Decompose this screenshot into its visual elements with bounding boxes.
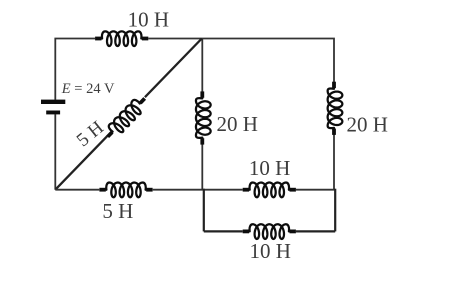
wire: lower loop left horizontal	[204, 230, 243, 232]
wire: bottom wire left of 5H	[55, 189, 99, 191]
wire: top wire left segment (top-left corner to 10H terminal)	[55, 39, 95, 100]
battery E bottom plate	[46, 111, 60, 115]
svg-text:10 H: 10 H	[250, 239, 291, 263]
svg-text:20 H: 20 H	[347, 113, 388, 137]
inductor L7 10H lower parallel	[243, 224, 296, 239]
wire: lower loop left vertical	[203, 189, 205, 232]
svg-text:10 H: 10 H	[249, 156, 290, 180]
wire: middle vertical upper (top node to 20H)	[201, 39, 203, 92]
wire: top wire right segment (10H to top-right corner, down to 20H)	[148, 39, 334, 86]
wire: lower loop right horizontal	[296, 230, 335, 232]
wire: upper branch junction to 10H	[204, 189, 243, 191]
svg-text:5 H: 5 H	[73, 117, 108, 151]
inductor L6 10H upper parallel	[243, 183, 296, 198]
svg-text:E = 24 V: E = 24 V	[61, 81, 115, 97]
inductor L1 10H top	[95, 31, 148, 46]
inductor L2 5H diagonal	[103, 94, 151, 142]
wire: right vertical lower (20H to right node)	[333, 131, 335, 189]
svg-text:5 H: 5 H	[102, 199, 133, 223]
svg-text:20 H: 20 H	[217, 112, 258, 136]
battery E (source) top plate	[41, 100, 65, 104]
wire: left vertical below battery	[54, 114, 56, 189]
wire: diagonal upper segment	[145, 39, 202, 98]
svg-text:10 H: 10 H	[128, 7, 169, 31]
wire: diagonal lower segment	[55, 136, 107, 190]
inductor L5 5H bottom	[99, 183, 152, 198]
inductor L4 20H right	[328, 82, 343, 135]
wire: middle vertical lower (20H to junction)	[201, 144, 203, 189]
wire: bottom wire 5H to junction	[153, 189, 204, 191]
wire: lower loop right vertical	[334, 189, 336, 232]
inductor L3 20H middle	[196, 91, 211, 144]
wire: upper branch 10H to right node	[296, 189, 335, 191]
